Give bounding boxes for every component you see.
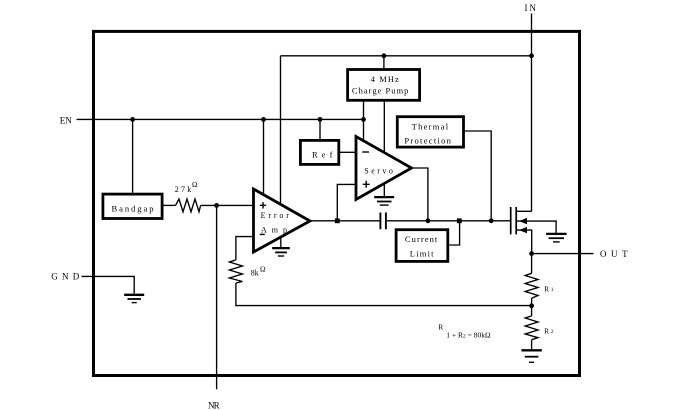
value label R1+R2=80k (438, 323, 491, 340)
node NR junction (214, 203, 219, 208)
ground (R2) (521, 350, 541, 362)
wire ref to servo (340, 151, 356, 153)
wire top supply rail (281, 55, 532, 57)
svg-text:Amp: Amp (261, 226, 287, 235)
wire error amp output to gate (left of cap) (310, 220, 380, 222)
resistor 8k (229, 260, 242, 283)
wire OUT horizontal (532, 253, 594, 255)
wire error amp minus input (236, 237, 254, 260)
wire IN vertical (531, 14, 533, 212)
ground (error amp) (272, 237, 290, 256)
wire charge pump top tap (383, 56, 385, 70)
capacitor C1 (380, 213, 386, 230)
resistor R2 (525, 316, 538, 340)
ground (servo) (374, 184, 394, 206)
box Thermal Protection (397, 117, 463, 147)
wire error-amp top tap 1 (263, 119, 265, 194)
wire charge pump bottom tap 2 (383, 101, 385, 153)
op-amp Servo (356, 137, 412, 200)
wire servo output (412, 168, 428, 221)
junction EN/error-amp (261, 117, 266, 122)
svg-text:Ref: Ref (312, 149, 333, 159)
svg-text:R: R (544, 285, 549, 294)
junction thermal protection (489, 218, 494, 223)
wire cap to gate (387, 220, 510, 222)
svg-text:Ω: Ω (260, 265, 266, 274)
box Current Limit (396, 230, 448, 262)
box 4 MHz Charge Pump (348, 70, 420, 101)
wire OUT to R1 (531, 254, 533, 274)
wire EN horizontal (77, 118, 364, 120)
wire R1 to R2 (531, 298, 533, 316)
resistor R1 (525, 273, 538, 298)
svg-text:27k: 27k (175, 185, 192, 194)
junction EN/ref (318, 117, 323, 122)
ground (GND pin) (124, 295, 144, 303)
svg-text:GND: GND (51, 272, 79, 282)
junction OUT node (529, 251, 534, 256)
svg-text:1: 1 (551, 287, 554, 293)
wire ref tap (319, 119, 321, 140)
junction EN/charge-pump (361, 117, 366, 122)
svg-text:IN: IN (525, 3, 537, 13)
svg-text:Current: Current (405, 234, 438, 244)
svg-text:1 + R2 = 80kΩ: 1 + R2 = 80kΩ (446, 331, 491, 340)
svg-text:Limit: Limit (410, 249, 434, 259)
svg-text:R: R (438, 323, 443, 332)
svg-text:R: R (544, 327, 549, 336)
box Ref (300, 140, 338, 164)
svg-text:Servo: Servo (364, 167, 393, 176)
IC boundary box (94, 31, 580, 375)
junction servo plus tap (square) (335, 218, 340, 223)
junction feedback node (529, 303, 534, 308)
wire R2 to ground (531, 340, 533, 349)
wire servo plus input (337, 184, 356, 220)
junction current limit (square) (457, 218, 462, 223)
transistor Q1 pass FET (511, 207, 556, 254)
junction EN/bandgap (130, 117, 135, 122)
wire bandgap output (164, 204, 176, 206)
svg-text:Charge Pump: Charge Pump (352, 85, 409, 95)
svg-text:Ω: Ω (192, 180, 198, 189)
wire thermal protection output (465, 131, 492, 221)
junction top rail / charge pump (382, 53, 387, 58)
svg-text:NR: NR (208, 401, 220, 410)
svg-text:Thermal: Thermal (412, 122, 449, 132)
svg-text:8k: 8k (251, 268, 259, 277)
svg-text:2: 2 (551, 329, 554, 335)
resistor 27k (176, 199, 201, 212)
wire NR vertical (216, 205, 218, 389)
wire current limit output (449, 221, 459, 245)
svg-text:EN: EN (60, 116, 73, 126)
ground (FET body) (546, 234, 566, 242)
box Bandgap (103, 194, 162, 218)
wire bandgap tap (132, 119, 134, 192)
wire GND (82, 276, 135, 293)
wire feedback (236, 283, 532, 306)
wire error-amp top tap 2 (280, 56, 282, 204)
svg-text:4 MHz: 4 MHz (371, 74, 399, 84)
svg-text:Protection: Protection (404, 136, 451, 146)
op-amp Error Amp (254, 189, 311, 252)
wire charge pump bottom tap 1 (363, 101, 365, 142)
junction servo output (426, 218, 431, 223)
svg-text:OUT: OUT (600, 249, 628, 259)
junction top rail / IN (529, 53, 534, 58)
wire resistor to error amp (201, 204, 254, 206)
